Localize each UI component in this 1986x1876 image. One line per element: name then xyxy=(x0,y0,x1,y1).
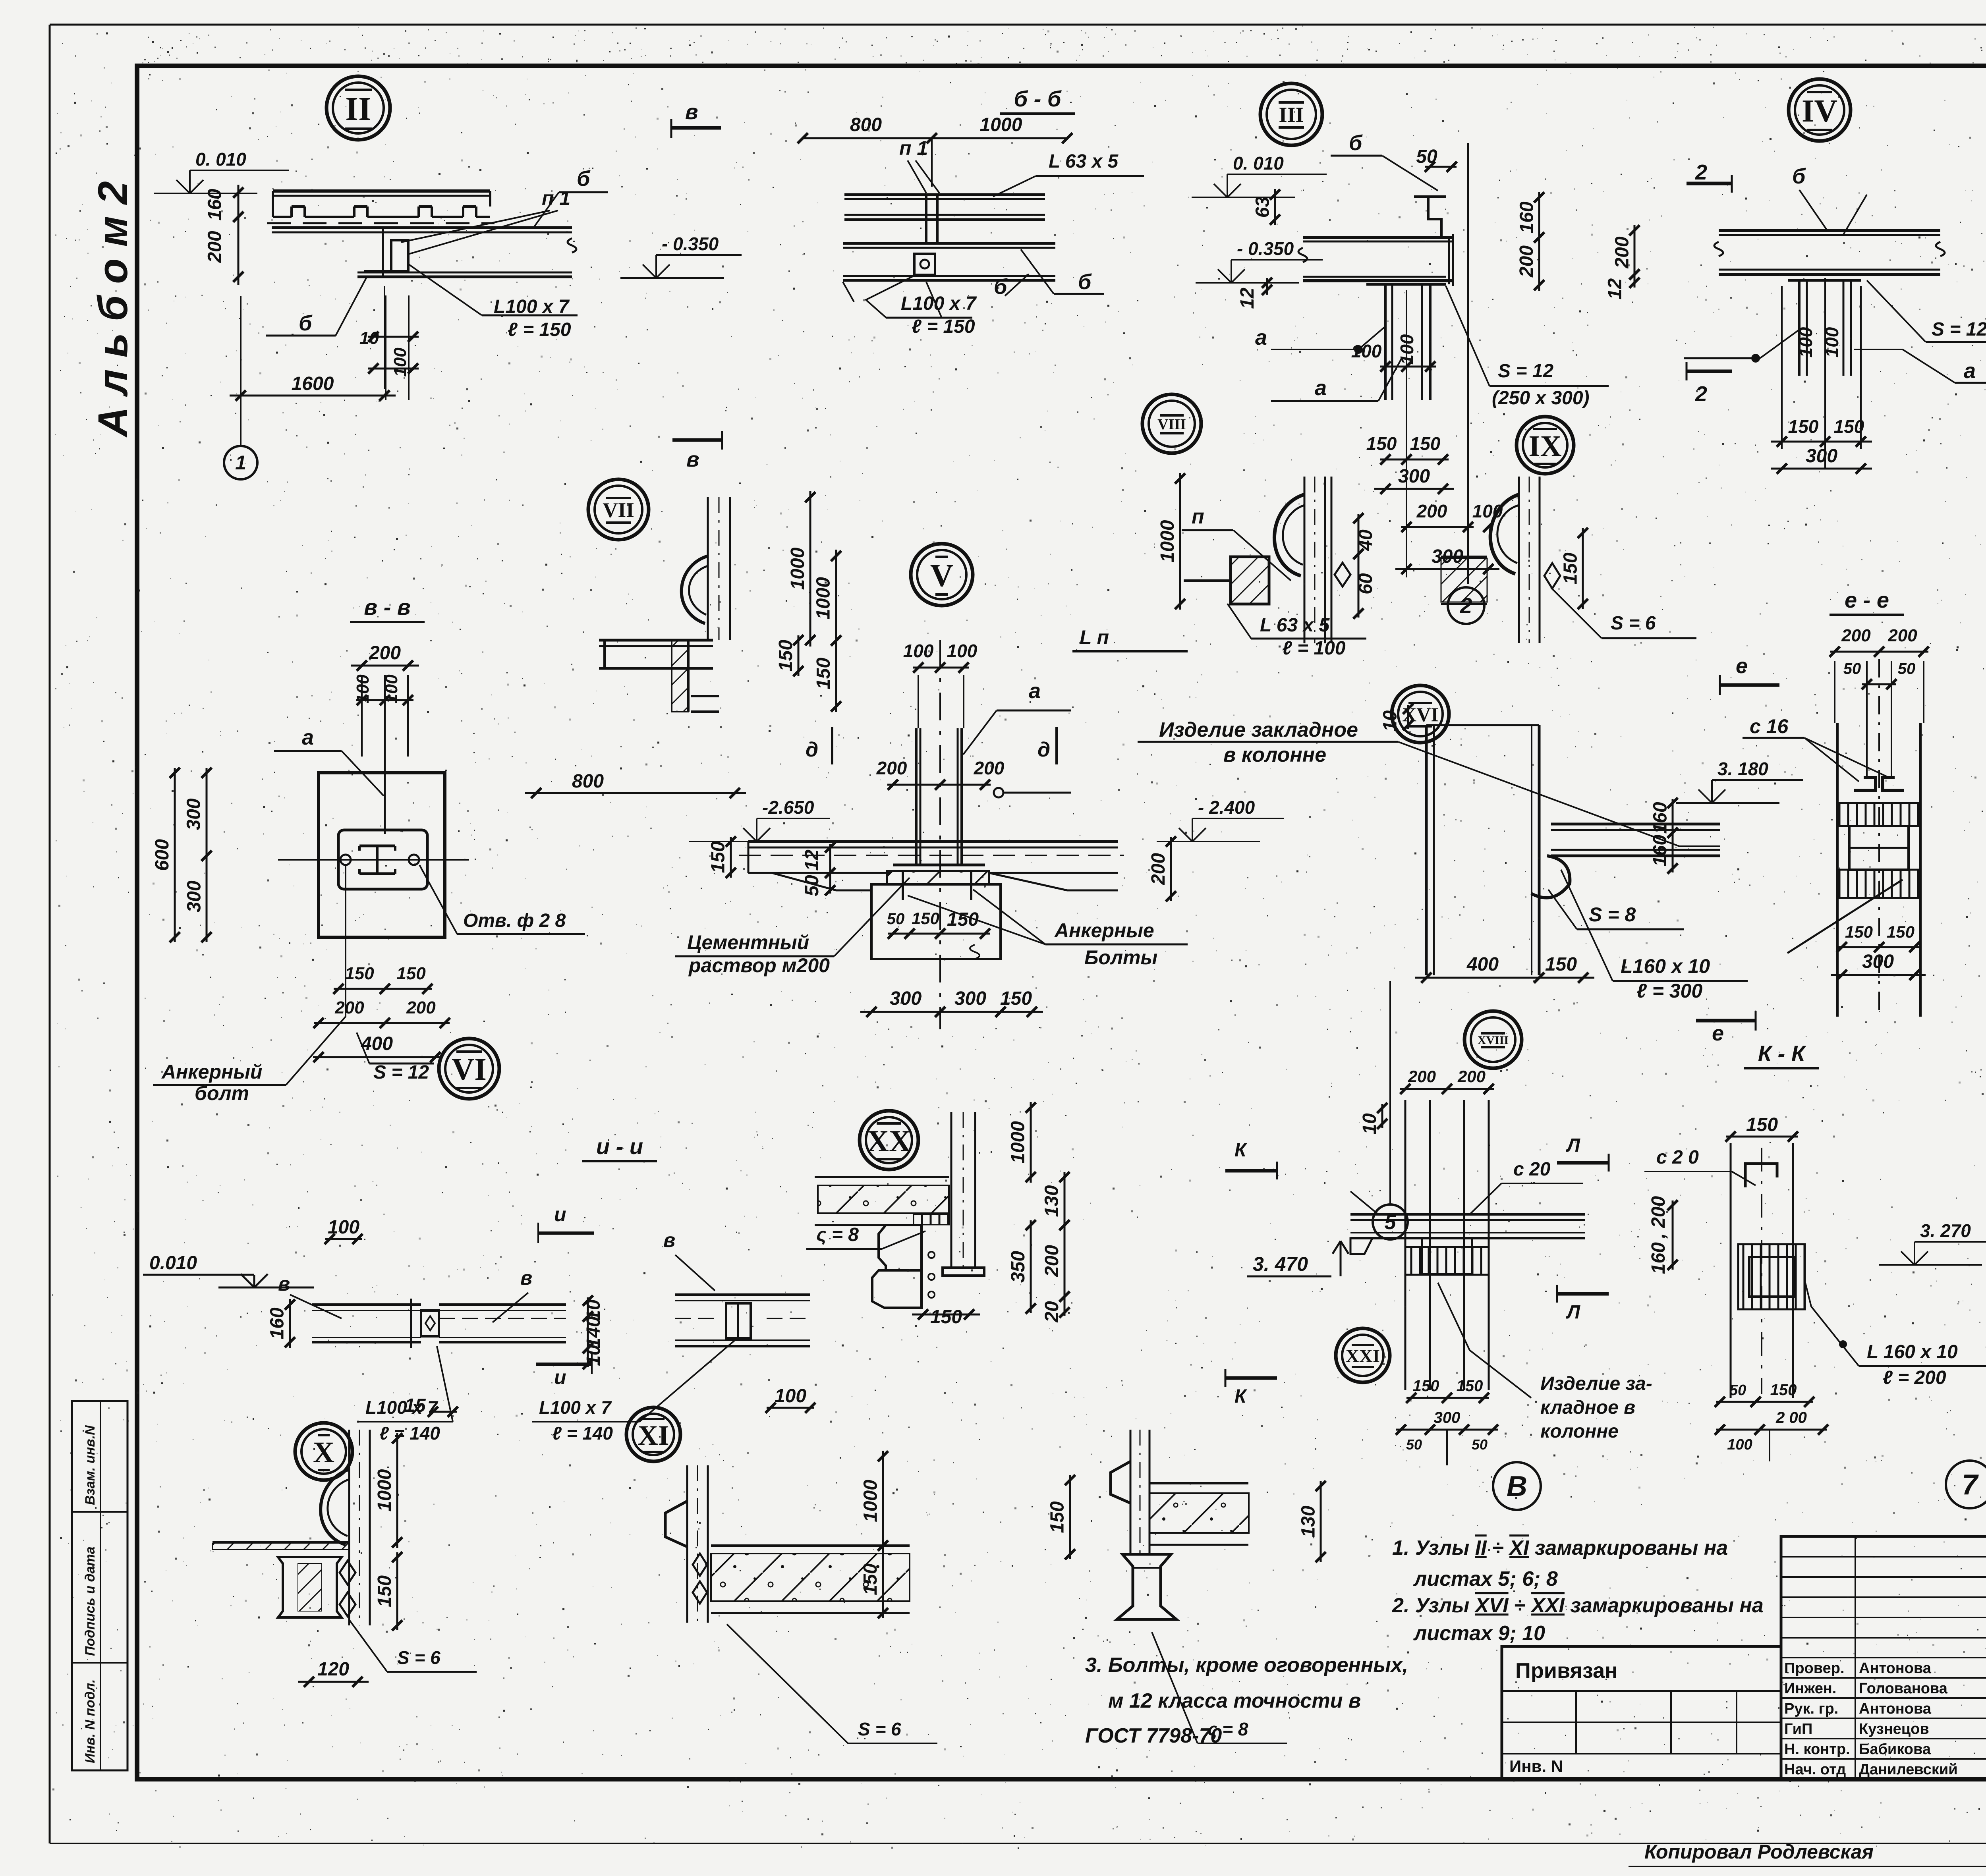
svg-text:1000: 1000 xyxy=(374,1469,395,1511)
svg-text:40: 40 xyxy=(1355,529,1376,551)
svg-text:50: 50 xyxy=(887,910,905,928)
svg-text:п 1: п 1 xyxy=(899,137,928,159)
svg-text:1000: 1000 xyxy=(813,577,834,620)
section K-K right detail xyxy=(1726,1136,1798,1138)
svg-text:7: 7 xyxy=(1962,1469,1979,1501)
svg-text:XX: XX xyxy=(867,1124,911,1158)
svg-text:150: 150 xyxy=(1788,416,1819,437)
svg-text:с 2 0: с 2 0 xyxy=(1656,1147,1699,1168)
svg-text:10: 10 xyxy=(1359,1113,1380,1135)
svg-text:XVI: XVI xyxy=(1402,703,1439,726)
svg-text:L100 х 7: L100 х 7 xyxy=(365,1397,439,1418)
title block names table xyxy=(1781,1536,1986,1779)
svg-text:12: 12 xyxy=(802,849,823,871)
svg-text:200: 200 xyxy=(369,643,401,664)
node VIII circle xyxy=(1142,394,1201,453)
node IX circle xyxy=(1517,417,1574,474)
node VII circle xyxy=(588,479,649,540)
svg-text:Инжен.: Инжен. xyxy=(1784,1680,1836,1697)
svg-text:Л: Л xyxy=(1566,1302,1580,1323)
svg-text:300: 300 xyxy=(954,988,986,1009)
svg-text:листах 9; 10: листах 9; 10 xyxy=(1413,1622,1545,1645)
svg-text:2: 2 xyxy=(1695,382,1707,406)
svg-text:L 63 х 5: L 63 х 5 xyxy=(1049,151,1119,172)
svg-text:12: 12 xyxy=(1237,288,1258,309)
svg-text:100: 100 xyxy=(390,347,410,377)
svg-text:Инв. N подл.: Инв. N подл. xyxy=(83,1679,98,1763)
node X circle xyxy=(295,1423,352,1480)
svg-text:1. Узлы II ÷ XI замаркированы: 1. Узлы II ÷ XI замаркированы на xyxy=(1392,1536,1728,1559)
svg-text:100: 100 xyxy=(1795,327,1816,357)
svg-text:III: III xyxy=(1279,103,1304,127)
node VIII detail xyxy=(1304,477,1306,643)
svg-text:150: 150 xyxy=(1413,1377,1439,1395)
svg-text:VII: VII xyxy=(603,499,634,522)
svg-text:L100 х 7: L100 х 7 xyxy=(539,1397,612,1418)
svg-text:200: 200 xyxy=(1041,1245,1063,1277)
svg-text:50: 50 xyxy=(1843,660,1861,677)
svg-text:0.010: 0.010 xyxy=(149,1253,197,1274)
node V circle xyxy=(911,544,973,606)
svg-text:1000: 1000 xyxy=(980,114,1022,135)
svg-text:L100 х 7: L100 х 7 xyxy=(494,296,570,317)
node XX circle xyxy=(860,1111,918,1170)
svg-text:100: 100 xyxy=(1822,327,1842,357)
svg-text:2: 2 xyxy=(1460,593,1472,618)
node VII detail xyxy=(707,497,709,640)
svg-text:100: 100 xyxy=(328,1217,359,1238)
svg-text:ℓ = 200: ℓ = 200 xyxy=(1883,1367,1946,1388)
svg-text:0. 010: 0. 010 xyxy=(1233,153,1284,174)
svg-text:колонне: колонне xyxy=(1540,1421,1619,1442)
svg-text:Болты: Болты xyxy=(1084,946,1157,969)
node XVI circle xyxy=(1392,685,1449,743)
section e-e detail xyxy=(1830,651,1928,653)
svg-text:150: 150 xyxy=(1834,416,1864,437)
svg-text:в: в xyxy=(520,1267,532,1289)
svg-text:листах 5; 6; 8: листах 5; 6; 8 xyxy=(1413,1567,1558,1590)
svg-text:200: 200 xyxy=(1887,626,1917,645)
svg-text:600: 600 xyxy=(152,839,173,871)
svg-text:150: 150 xyxy=(1845,923,1873,941)
svg-text:а: а xyxy=(302,726,314,749)
svg-text:-2.650: -2.650 xyxy=(762,797,814,818)
node XI detail xyxy=(686,1465,688,1623)
svg-text:Кузнецов: Кузнецов xyxy=(1859,1721,1929,1737)
svg-text:100: 100 xyxy=(353,674,373,704)
svg-text:Данилевский: Данилевский xyxy=(1859,1761,1958,1778)
svg-text:S = 8: S = 8 xyxy=(1589,903,1636,926)
svg-text:2: 2 xyxy=(1695,160,1707,184)
svg-text:300: 300 xyxy=(890,988,922,1009)
svg-text:S = 6: S = 6 xyxy=(397,1647,440,1668)
svg-text:1000: 1000 xyxy=(1157,520,1178,562)
svg-text:12: 12 xyxy=(1605,278,1626,300)
node II circle xyxy=(326,76,390,140)
svg-text:120: 120 xyxy=(317,1659,349,1680)
svg-text:200: 200 xyxy=(334,998,364,1017)
svg-text:и: и xyxy=(554,1366,566,1388)
left stamp boxes xyxy=(72,1401,128,1770)
svg-text:20: 20 xyxy=(1041,1301,1063,1323)
svg-text:800: 800 xyxy=(572,771,604,792)
svg-text:Изделие закладное: Изделие закладное xyxy=(1159,718,1358,741)
node XVIII circle xyxy=(1464,1011,1522,1068)
svg-text:0. 010: 0. 010 xyxy=(195,149,246,170)
svg-text:- 0.350: - 0.350 xyxy=(662,234,719,254)
svg-text:150: 150 xyxy=(1457,1377,1483,1395)
svg-text:а: а xyxy=(1964,359,1976,383)
svg-text:раствор м200: раствор м200 xyxy=(688,954,830,977)
svg-text:Подпись и дата: Подпись и дата xyxy=(83,1546,98,1656)
svg-text:150: 150 xyxy=(374,1575,395,1607)
svg-text:200: 200 xyxy=(1148,853,1169,885)
svg-text:X: X xyxy=(313,1436,334,1469)
svg-text:в: в xyxy=(685,100,698,124)
svg-text:150: 150 xyxy=(1545,954,1577,975)
node XXI circle xyxy=(1336,1328,1390,1382)
svg-text:S = 6: S = 6 xyxy=(858,1719,901,1739)
node IX detail xyxy=(1518,477,1520,643)
svg-text:в - в: в - в xyxy=(364,594,410,620)
svg-text:150: 150 xyxy=(1366,433,1397,454)
svg-text:350: 350 xyxy=(1008,1251,1029,1283)
svg-text:кладное в: кладное в xyxy=(1540,1397,1635,1418)
svg-text:10: 10 xyxy=(359,328,379,348)
svg-text:200: 200 xyxy=(1457,1067,1486,1086)
svg-text:ℓ = 150: ℓ = 150 xyxy=(912,316,975,337)
svg-text:XI: XI xyxy=(638,1420,669,1451)
svg-text:130: 130 xyxy=(1298,1505,1319,1537)
svg-text:в: в xyxy=(278,1273,290,1295)
svg-text:д: д xyxy=(1037,738,1050,761)
svg-text:150: 150 xyxy=(813,658,834,689)
svg-text:160: 160 xyxy=(267,1307,288,1339)
svg-text:S = 12: S = 12 xyxy=(373,1062,429,1083)
svg-text:V: V xyxy=(930,558,954,593)
svg-text:150: 150 xyxy=(1047,1501,1068,1533)
svg-text:А л ь б о м 2: А л ь б о м 2 xyxy=(90,181,136,438)
svg-text:ГиП: ГиП xyxy=(1784,1721,1812,1737)
svg-text:100: 100 xyxy=(1397,334,1417,365)
svg-text:IV: IV xyxy=(1802,93,1837,129)
svg-text:300: 300 xyxy=(184,798,205,830)
svg-text:К - К: К - К xyxy=(1758,1041,1806,1066)
svg-text:160: 160 xyxy=(1517,201,1538,233)
svg-text:ℓ = 100: ℓ = 100 xyxy=(1282,638,1346,659)
svg-text:60: 60 xyxy=(1355,573,1376,594)
svg-text:VI: VI xyxy=(452,1052,487,1087)
svg-text:50: 50 xyxy=(1898,660,1916,677)
svg-text:S = 6: S = 6 xyxy=(1611,613,1656,634)
svg-text:ℓ = 150: ℓ = 150 xyxy=(508,319,571,340)
svg-text:160: 160 xyxy=(205,189,226,220)
node IV circle xyxy=(1789,79,1851,141)
svg-text:(250 х 300): (250 х 300) xyxy=(1492,388,1590,409)
svg-text:п 1: п 1 xyxy=(542,187,570,209)
svg-text:400: 400 xyxy=(1466,954,1499,975)
svg-text:VIII: VIII xyxy=(1157,416,1186,433)
svg-text:150: 150 xyxy=(1000,988,1032,1009)
svg-text:Бабикова: Бабикова xyxy=(1859,1741,1931,1758)
svg-text:800: 800 xyxy=(850,114,882,135)
svg-text:Нач. отд: Нач. отд xyxy=(1784,1761,1846,1778)
svg-text:Копировал Родлевская: Копировал Родлевская xyxy=(1644,1841,1874,1863)
node VI circle xyxy=(439,1038,499,1099)
svg-text:150: 150 xyxy=(1887,923,1915,941)
svg-text:150: 150 xyxy=(912,909,939,928)
svg-text:150: 150 xyxy=(1560,552,1581,584)
svg-text:б: б xyxy=(1078,270,1092,294)
svg-text:150: 150 xyxy=(396,964,426,983)
svg-text:L п: L п xyxy=(1080,626,1109,648)
svg-text:150: 150 xyxy=(775,640,796,672)
svg-text:150: 150 xyxy=(930,1307,962,1328)
svg-text:XXI: XXI xyxy=(1346,1346,1380,1366)
svg-text:б: б xyxy=(1792,164,1806,188)
svg-text:150: 150 xyxy=(1746,1114,1778,1135)
svg-text:ГОСТ 7798-70: ГОСТ 7798-70 xyxy=(1085,1724,1222,1747)
svg-text:200: 200 xyxy=(1408,1067,1436,1086)
svg-text:К: К xyxy=(1234,1386,1248,1407)
svg-text:е: е xyxy=(1712,1021,1724,1045)
svg-text:б: б xyxy=(1349,131,1363,155)
svg-text:200: 200 xyxy=(205,231,226,263)
svg-text:Изделие за-: Изделие за- xyxy=(1540,1373,1652,1394)
svg-text:160: 160 xyxy=(1650,835,1671,867)
svg-text:Анкерные: Анкерные xyxy=(1054,919,1154,942)
svg-text:L 63 х 5: L 63 х 5 xyxy=(1260,615,1330,636)
svg-text:200: 200 xyxy=(1612,236,1633,268)
svg-text:200: 200 xyxy=(876,758,907,778)
svg-text:Антонова: Антонова xyxy=(1859,1700,1932,1717)
svg-text:м 12 класса точности в: м 12 класса точности в xyxy=(1108,1689,1361,1712)
svg-text:150: 150 xyxy=(1410,433,1441,454)
node III circle xyxy=(1260,83,1322,145)
svg-text:150: 150 xyxy=(1770,1381,1797,1399)
svg-text:в: в xyxy=(686,448,699,471)
svg-text:е: е xyxy=(1736,654,1748,678)
svg-text:ℓ = 140: ℓ = 140 xyxy=(552,1423,613,1444)
svg-text:1600: 1600 xyxy=(292,373,334,394)
svg-text:200: 200 xyxy=(406,998,436,1017)
svg-text:100: 100 xyxy=(1727,1436,1752,1453)
svg-text:п: п xyxy=(1192,505,1204,528)
svg-text:Провер.: Провер. xyxy=(1784,1660,1845,1677)
svg-text:3. Болты, кроме оговоренных,: 3. Болты, кроме оговоренных, xyxy=(1085,1654,1408,1677)
svg-text:с 20: с 20 xyxy=(1513,1159,1551,1180)
svg-text:в колонне: в колонне xyxy=(1223,743,1326,766)
svg-text:160 , 200: 160 , 200 xyxy=(1648,1196,1669,1274)
svg-text:50: 50 xyxy=(1406,1436,1422,1453)
svg-text:XVIII: XVIII xyxy=(1478,1034,1509,1047)
node XXI detail xyxy=(1130,1430,1132,1554)
svg-text:50: 50 xyxy=(1472,1436,1488,1453)
svg-text:е - е: е - е xyxy=(1845,587,1889,612)
svg-text:1000: 1000 xyxy=(787,547,808,590)
svg-text:с 16: с 16 xyxy=(1750,715,1789,737)
svg-text:ς = 8: ς = 8 xyxy=(816,1224,859,1245)
svg-text:б: б xyxy=(299,311,313,335)
svg-text:50: 50 xyxy=(1416,146,1437,167)
svg-text:300: 300 xyxy=(1398,466,1430,487)
svg-text:а: а xyxy=(1029,679,1041,703)
svg-text:63: 63 xyxy=(1252,197,1273,218)
node V detail xyxy=(835,550,837,647)
svg-text:130: 130 xyxy=(1041,1185,1063,1217)
svg-text:а: а xyxy=(1315,376,1327,400)
svg-text:200: 200 xyxy=(974,758,1005,778)
svg-text:L 160 х 10: L 160 х 10 xyxy=(1867,1341,1958,1363)
svg-text:Привязан: Привязан xyxy=(1515,1659,1618,1683)
svg-text:200: 200 xyxy=(1416,501,1447,521)
svg-text:Взам. инв.N: Взам. инв.N xyxy=(83,1425,98,1505)
svg-text:2. Узлы XVI ÷ XXI замаркиров: 2. Узлы XVI ÷ XXI замаркированы на xyxy=(1392,1594,1764,1617)
svg-text:140: 140 xyxy=(583,1316,604,1348)
svg-text:1000: 1000 xyxy=(1008,1121,1029,1164)
svg-text:б - б: б - б xyxy=(1014,86,1061,111)
svg-text:и - и: и - и xyxy=(596,1134,643,1159)
node IV detail xyxy=(1719,229,1940,232)
svg-text:L160 х 10: L160 х 10 xyxy=(1621,955,1710,977)
node XI circle xyxy=(626,1407,680,1461)
svg-text:Анкерный: Анкерный xyxy=(161,1061,262,1083)
svg-text:Н. контр.: Н. контр. xyxy=(1784,1741,1850,1758)
svg-text:200: 200 xyxy=(1516,245,1537,278)
svg-text:в: в xyxy=(663,1229,675,1251)
svg-text:3. 470: 3. 470 xyxy=(1253,1253,1308,1275)
svg-text:200: 200 xyxy=(1841,626,1871,645)
svg-text:1: 1 xyxy=(235,452,246,474)
node X detail xyxy=(348,1430,350,1625)
svg-text:ℓ = 300: ℓ = 300 xyxy=(1636,980,1702,1002)
svg-text:300: 300 xyxy=(184,880,205,912)
svg-text:160: 160 xyxy=(1650,802,1671,834)
svg-text:Рук. гр.: Рук. гр. xyxy=(1784,1700,1838,1717)
svg-text:3. 180: 3. 180 xyxy=(1717,759,1768,779)
sheet outer border xyxy=(50,24,1986,26)
svg-text:Цементный: Цементный xyxy=(687,931,809,953)
svg-text:300: 300 xyxy=(1862,951,1894,972)
svg-text:Антонова: Антонова xyxy=(1859,1660,1932,1677)
svg-text:100: 100 xyxy=(947,641,978,661)
node XX detail xyxy=(815,1176,949,1178)
svg-text:300: 300 xyxy=(1434,1409,1461,1426)
svg-text:S = 12: S = 12 xyxy=(1932,319,1986,340)
svg-text:3. 270: 3. 270 xyxy=(1920,1220,1971,1241)
svg-text:150: 150 xyxy=(860,1563,881,1595)
svg-text:Голованова: Голованова xyxy=(1859,1680,1948,1697)
svg-text:400: 400 xyxy=(361,1033,393,1054)
svg-text:Л: Л xyxy=(1566,1135,1580,1156)
svg-text:150: 150 xyxy=(345,964,374,983)
svg-text:Инв. N: Инв. N xyxy=(1509,1757,1563,1776)
svg-text:ℓ = 140: ℓ = 140 xyxy=(379,1423,440,1444)
svg-text:2 00: 2 00 xyxy=(1775,1409,1807,1426)
svg-text:IX: IX xyxy=(1528,430,1561,463)
svg-text:S = 12: S = 12 xyxy=(1498,361,1553,382)
svg-text:50: 50 xyxy=(802,875,823,896)
title block privyazan table xyxy=(1502,1646,1781,1779)
svg-text:50: 50 xyxy=(1729,1382,1746,1399)
svg-text:К: К xyxy=(1234,1140,1248,1161)
svg-text:а: а xyxy=(1255,326,1267,349)
svg-text:II: II xyxy=(345,91,371,127)
svg-text:150: 150 xyxy=(708,841,729,873)
svg-text:и: и xyxy=(554,1203,566,1226)
svg-text:100: 100 xyxy=(775,1386,806,1407)
svg-text:1000: 1000 xyxy=(860,1480,881,1522)
svg-text:д: д xyxy=(806,738,818,761)
svg-text:- 2.400: - 2.400 xyxy=(1198,797,1255,818)
svg-text:Отв. ф 2 8: Отв. ф 2 8 xyxy=(463,910,566,931)
svg-text:б: б xyxy=(577,167,591,191)
svg-text:- 0.350: - 0.350 xyxy=(1237,238,1294,259)
svg-text:300: 300 xyxy=(1806,446,1837,467)
